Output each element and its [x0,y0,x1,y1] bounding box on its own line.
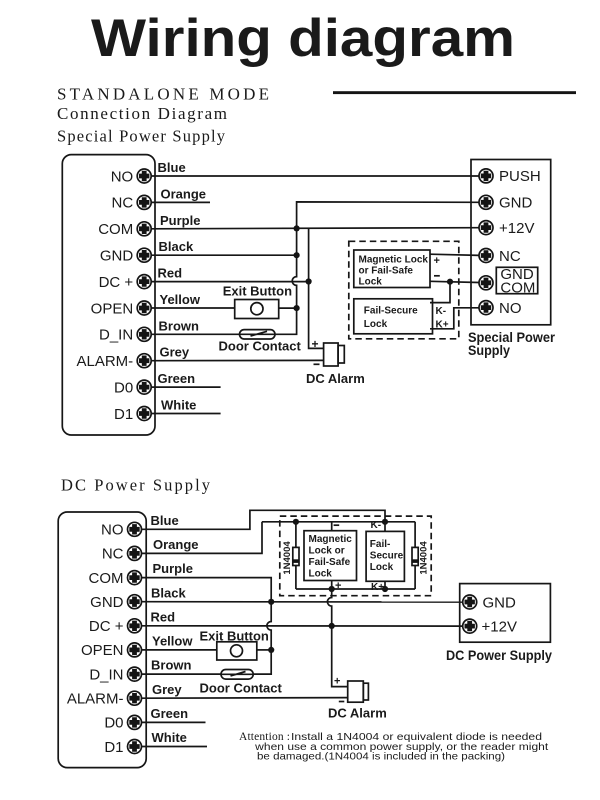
svg-text:DC Power Supply: DC Power Supply [446,647,552,663]
svg-text:Fail-Secure: Fail-Secure [364,306,418,317]
svg-text:White: White [152,730,187,745]
svg-text:Purple: Purple [160,213,200,228]
svg-text:1N4004: 1N4004 [419,541,430,575]
svg-text:Brown: Brown [151,658,192,673]
svg-text:NC: NC [499,248,521,265]
svg-text:GND: GND [499,195,533,212]
svg-text:+: + [434,255,440,267]
svg-text:D_IN: D_IN [99,327,133,344]
svg-text:+12V: +12V [482,618,517,635]
svg-text:COM: COM [500,279,535,296]
svg-text:GND: GND [483,594,517,611]
svg-text:D1: D1 [114,406,133,423]
svg-text:NC: NC [102,546,124,563]
svg-text:Grey: Grey [152,682,182,697]
svg-text:D0: D0 [114,379,133,396]
svg-text:Exit Button: Exit Button [223,284,292,299]
svg-text:GND: GND [100,248,134,265]
svg-text:K-: K- [436,306,447,317]
svg-text:White: White [161,398,196,413]
svg-text:DC Power Supply: DC Power Supply [61,476,211,495]
svg-text:NO: NO [499,300,522,317]
svg-text:PUSH: PUSH [499,168,541,185]
svg-text:STANDALONE MODE: STANDALONE MODE [57,84,269,103]
svg-text:Grey: Grey [160,345,190,360]
svg-text:Blue: Blue [151,513,179,528]
svg-text:or Fail-Safe: or Fail-Safe [359,266,414,277]
svg-text:Blue: Blue [158,160,186,175]
svg-text:D0: D0 [104,715,123,732]
svg-text:Yellow: Yellow [152,634,193,649]
svg-text:Fail-: Fail- [370,539,391,550]
svg-text:Lock: Lock [359,277,383,288]
svg-text:K+: K+ [436,320,449,331]
svg-text:be damaged.(1N4004 is included: be damaged.(1N4004 is included in the pa… [257,751,505,763]
svg-text:Secure: Secure [370,550,404,561]
svg-text:ALARM-: ALARM- [67,691,124,708]
svg-text:COM: COM [98,221,133,238]
svg-text:+: + [335,580,341,592]
svg-text:DC Alarm: DC Alarm [306,371,365,386]
svg-text:DC +: DC + [99,274,134,291]
svg-text:+12V: +12V [499,220,534,237]
svg-text:Lock: Lock [370,562,394,573]
svg-text:Black: Black [159,239,194,254]
svg-text:Red: Red [158,266,183,281]
svg-text:COM: COM [89,570,124,587]
svg-text:D1: D1 [104,739,123,756]
svg-text:Fail-Safe: Fail-Safe [309,557,351,568]
svg-text:+: + [334,676,340,688]
svg-text:DC Alarm: DC Alarm [328,705,387,720]
svg-text:K-: K- [371,520,382,531]
svg-text:K+: K+ [371,582,384,593]
svg-text:Connection Diagram: Connection Diagram [57,104,227,123]
svg-text:OPEN: OPEN [81,642,124,659]
svg-text:OPEN: OPEN [91,300,134,317]
svg-text:NO: NO [101,522,124,539]
svg-text:Brown: Brown [159,318,200,333]
svg-text:1N4004: 1N4004 [282,541,293,575]
svg-text:ALARM-: ALARM- [77,353,134,370]
svg-text:Door Contact: Door Contact [219,339,302,354]
svg-text:NC: NC [112,195,134,212]
svg-text:D_IN: D_IN [89,666,123,683]
svg-text:DC +: DC + [89,618,124,635]
svg-text:Lock: Lock [364,319,388,330]
svg-text:Green: Green [151,706,189,721]
svg-text:Purple: Purple [153,561,193,576]
svg-text:Supply: Supply [468,342,510,358]
svg-text:+: + [312,337,319,351]
svg-text:Lock or: Lock or [309,545,345,556]
svg-text:Orange: Orange [161,186,207,201]
svg-text:Door Contact: Door Contact [200,680,283,695]
svg-text:Wiring diagram: Wiring diagram [91,9,515,68]
svg-text:Black: Black [151,585,186,600]
svg-text:Yellow: Yellow [160,292,201,307]
svg-text:NO: NO [111,168,134,185]
svg-text:Green: Green [158,371,196,386]
svg-text:Magnetic Lock: Magnetic Lock [359,255,429,266]
svg-text:Magnetic: Magnetic [309,534,353,545]
svg-text:Red: Red [151,609,176,624]
svg-text:GND: GND [90,594,124,611]
svg-text:Lock: Lock [309,568,333,579]
svg-text:Orange: Orange [153,537,199,552]
